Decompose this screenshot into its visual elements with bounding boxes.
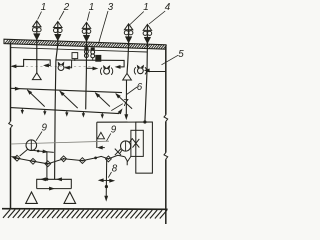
pipe drop to basement loop <box>46 152 48 180</box>
outlet tick 1 on line B <box>21 108 23 111</box>
meter unit left side <box>96 122 98 148</box>
arrow on line A <box>14 87 19 89</box>
junction dot on outlet <box>105 185 108 188</box>
water meter circle left <box>26 140 37 151</box>
pipe riser St4 lower drop <box>125 80 127 116</box>
arrow outlet to ground <box>105 196 108 201</box>
outlet tick 2 on line B <box>44 110 46 113</box>
stub arrow at meter unit <box>99 147 105 149</box>
fixture connection diagonal 3 <box>95 93 110 107</box>
funnel under riser St1 <box>32 73 41 80</box>
svg-text:9: 9 <box>111 125 117 136</box>
pipe floor line B <box>11 108 120 114</box>
tank symbol on riser St3 <box>85 48 88 50</box>
vent head riser St5 <box>146 25 148 49</box>
pipe stub to mixer B with arrow <box>145 69 147 71</box>
arrow serpentine top 1 <box>41 178 46 181</box>
junction dot serpentine <box>45 178 48 181</box>
pipe floor line A <box>11 88 123 92</box>
vent head riser St1 <box>36 21 38 45</box>
bypass inner box <box>131 130 143 156</box>
tank symbol second <box>91 48 94 50</box>
pipe tee on riser St3 with arrow <box>86 67 96 69</box>
equipment box right <box>96 55 101 61</box>
funnel basement right <box>64 192 76 203</box>
pipe serpentine bottom <box>37 188 72 190</box>
arrow branch1 left outlet <box>12 65 17 68</box>
mixer tap symbol A <box>104 68 110 74</box>
pipe riser St1 drop <box>36 44 38 73</box>
valve 5 on collector <box>80 158 86 164</box>
arrow riser St4 outlet <box>125 115 128 120</box>
valve 2 on collector <box>30 158 36 164</box>
equipment box left <box>72 53 78 59</box>
valve cross at meter inlet <box>115 149 121 156</box>
arrow branch2 outlet <box>116 65 121 68</box>
pipe serpentine top <box>37 179 72 188</box>
outlet tick 5 on line B <box>101 113 103 116</box>
left wall <box>10 42 12 122</box>
pipe riser St3 drop <box>85 44 88 109</box>
mixer tap symbol B <box>138 68 144 74</box>
valve 6 on collector <box>106 156 112 162</box>
svg-text:1: 1 <box>143 2 148 13</box>
arrow serpentine top 2 <box>57 178 62 181</box>
fixture connection diagonal 2 <box>60 91 78 108</box>
pipe collector left end arrow <box>13 157 17 158</box>
valve 3 on collector <box>45 161 51 167</box>
pipe outlet to city main <box>105 159 108 199</box>
vent head riser St2 <box>57 22 59 46</box>
bypass outer box <box>136 122 153 173</box>
svg-text:1: 1 <box>41 2 46 13</box>
pipe attic branch 1 <box>12 59 50 66</box>
vent head riser St4 <box>128 24 130 48</box>
right wall <box>165 47 167 115</box>
pipe collector elbow down <box>125 157 127 166</box>
arrow branch1 right outlet <box>44 64 49 67</box>
crossing arrows on outlet <box>100 179 113 181</box>
pipe basement collector <box>17 155 125 164</box>
junction dot on riser St5 <box>143 120 146 123</box>
svg-text:5: 5 <box>178 49 184 60</box>
junction dot on meter outlet <box>37 150 40 153</box>
tap symbol on riser St2 <box>58 65 64 71</box>
outlet tick 4 on line B <box>82 112 84 115</box>
pipe riser St2 drop <box>55 45 58 180</box>
funnel basement left <box>26 192 38 203</box>
svg-text:4: 4 <box>165 2 171 13</box>
valve cross in bypass <box>133 139 140 148</box>
svg-text:1: 1 <box>89 2 94 13</box>
vent head riser St3 <box>86 23 88 47</box>
pipe St5 elbow into wall <box>147 71 166 73</box>
ceiling line under roof <box>11 48 148 52</box>
outlet tick 3 on line B <box>66 111 68 114</box>
pipe top of meter unit <box>97 121 153 123</box>
paper background <box>0 0 190 236</box>
svg-text:9: 9 <box>41 123 47 134</box>
pipe riser St4 drop <box>127 45 129 74</box>
pipe meter to box <box>129 138 132 142</box>
pipe elbow to tap with arrow <box>66 60 72 68</box>
fixture connection diagonal 1 <box>27 90 44 107</box>
roof slab with hatch <box>4 39 166 49</box>
arrow serpentine bottom <box>49 187 54 190</box>
valve 4 on collector <box>61 156 67 162</box>
svg-text:8: 8 <box>112 164 118 175</box>
water meter circle right <box>121 141 131 151</box>
inlet funnel <box>97 132 104 138</box>
arrow on meter outlet <box>43 150 48 153</box>
pipe riser St5 drop <box>145 45 148 123</box>
pipe valve to meter <box>120 150 123 154</box>
attic dashed line <box>12 66 94 68</box>
svg-text:6: 6 <box>137 82 143 93</box>
valve 1 on collector <box>14 155 20 161</box>
ground line with hatching <box>2 208 168 211</box>
junction dot collector <box>94 157 97 160</box>
pipe meter to riser drop <box>32 150 53 152</box>
arrow line B end <box>119 110 121 113</box>
svg-text:3: 3 <box>108 2 114 13</box>
funnel under riser St4 <box>123 73 132 80</box>
pipe meter to valve D1 <box>20 149 28 156</box>
fixture connection diagonal 4 <box>116 94 132 109</box>
pipe attic branch 2 <box>56 60 124 67</box>
faint basement floor line <box>11 141 109 144</box>
